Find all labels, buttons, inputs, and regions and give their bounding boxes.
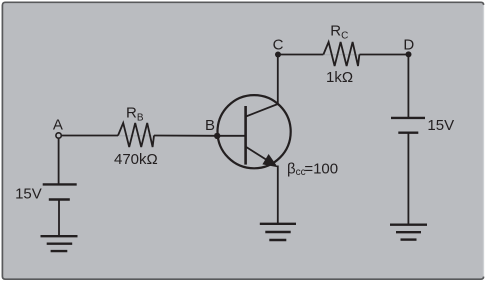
ground middle bbox=[260, 224, 296, 240]
battery V2 long plate bbox=[391, 117, 425, 119]
transistor Q1 circle bbox=[218, 95, 291, 168]
svg-text:B: B bbox=[205, 117, 215, 134]
svg-text:βcc=100: βcc=100 bbox=[287, 161, 338, 179]
battery V1 long plate bbox=[43, 183, 77, 185]
svg-text:D: D bbox=[403, 37, 414, 54]
wire battery V2 to ground bbox=[407, 133, 409, 225]
transistor Q1 collector lead bbox=[246, 104, 278, 116]
node B junction dot bbox=[214, 133, 220, 139]
wire node A down to battery V1 bbox=[58, 139, 60, 185]
wire RC axis (faint) bbox=[323, 54, 359, 56]
transistor Q1 emitter arrowhead bbox=[262, 154, 277, 167]
battery V1 short plate bbox=[49, 198, 70, 200]
node C junction dot bbox=[275, 52, 281, 58]
ground right bbox=[390, 225, 427, 240]
svg-text:1kΩ: 1kΩ bbox=[326, 69, 353, 86]
ground left bbox=[41, 236, 78, 251]
svg-text:15V: 15V bbox=[15, 185, 42, 202]
wire RC to node D bbox=[359, 54, 408, 56]
wire node B to base bar bbox=[217, 135, 245, 137]
collector wire up to node C bbox=[277, 55, 279, 105]
resistor RC bbox=[323, 42, 359, 66]
node D junction dot bbox=[406, 51, 412, 57]
battery V2 short plate bbox=[398, 131, 418, 133]
wire C to RC bbox=[278, 54, 323, 56]
wire A to RB bbox=[62, 135, 118, 137]
wire RB to node B bbox=[154, 135, 217, 137]
svg-text:C: C bbox=[273, 37, 284, 54]
wire D down to battery V2 bbox=[407, 54, 409, 118]
node A terminal circle bbox=[56, 133, 61, 138]
svg-text:A: A bbox=[53, 117, 63, 134]
emitter wire down to ground bbox=[277, 166, 279, 224]
wire RB axis (faint) bbox=[118, 135, 154, 137]
svg-text:15V: 15V bbox=[427, 117, 454, 134]
transistor Q1 emitter lead bbox=[246, 147, 270, 162]
transistor Q1 base bar bbox=[244, 106, 247, 165]
svg-text:470kΩ: 470kΩ bbox=[114, 151, 158, 168]
wire battery V1 to ground bbox=[58, 200, 60, 237]
resistor RB bbox=[118, 123, 154, 147]
